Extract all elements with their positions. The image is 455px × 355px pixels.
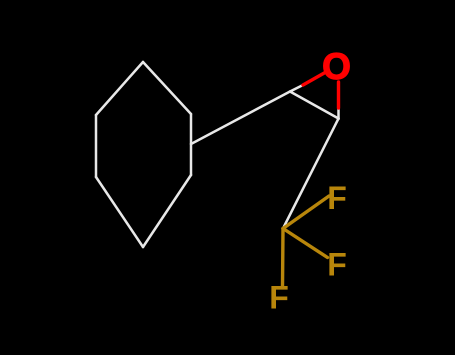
wire: bond O-C2 white half bbox=[337, 108, 340, 119]
wire: ring edge D-E bottom-left bbox=[96, 177, 143, 247]
svg-text:F: F bbox=[269, 280, 289, 316]
wire: bond O-C2 red half bbox=[337, 82, 340, 108]
wire: bond C3-F right bbox=[283, 229, 328, 258]
wire: bond C3-F bottom bbox=[281, 229, 285, 288]
wire: bond ring ipso to epoxide C1 bbox=[191, 92, 290, 145]
epoxide red bonds bbox=[303, 72, 339, 108]
wire: ring edge B-C right vertical bbox=[190, 114, 193, 175]
wire: ring edge A-B top-right bbox=[143, 62, 191, 114]
svg-text:F: F bbox=[327, 247, 347, 283]
svg-text:F: F bbox=[327, 180, 347, 216]
svg-text:O: O bbox=[322, 46, 351, 87]
CF3 olive bonds bbox=[283, 196, 330, 287]
wire: bond C2 to CF3 carbon C3 bbox=[283, 119, 339, 229]
wire: ring edge E-F left vertical bbox=[95, 115, 98, 177]
wire: bond epoxide C1-C2 bbox=[290, 92, 339, 119]
wire: bond O-C1 white half bbox=[290, 85, 303, 92]
wire: bond C3-F top bbox=[283, 196, 329, 229]
wire: ring edge C-D bottom-right bbox=[143, 175, 191, 247]
wire: ring edge F-A top-left bbox=[96, 62, 143, 115]
wire: bond O-C1 red half bbox=[303, 72, 326, 85]
